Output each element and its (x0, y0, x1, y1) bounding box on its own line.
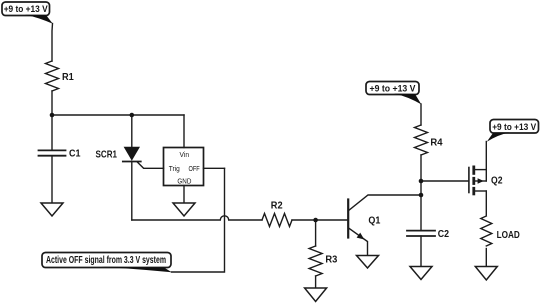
svg-text:Vin: Vin (180, 150, 190, 159)
svg-text:+9 to +13 V: +9 to +13 V (4, 4, 49, 15)
svg-text:SCR1: SCR1 (96, 150, 118, 161)
svg-text:Q2: Q2 (491, 176, 503, 187)
svg-text:LOAD: LOAD (497, 230, 520, 241)
svg-text:C2: C2 (438, 229, 450, 240)
svg-text:Active OFF signal from 3.3 V s: Active OFF signal from 3.3 V system (46, 254, 166, 266)
svg-text:C1: C1 (69, 149, 81, 160)
svg-text:GND: GND (177, 177, 191, 186)
svg-text:R2: R2 (271, 201, 283, 212)
svg-text:R3: R3 (325, 255, 337, 266)
svg-text:+9 to +13 V: +9 to +13 V (492, 122, 537, 133)
svg-text:OFF: OFF (189, 164, 201, 173)
svg-text:Q1: Q1 (368, 216, 380, 227)
svg-text:+9 to +13 V: +9 to +13 V (370, 84, 417, 95)
svg-text:R4: R4 (430, 138, 443, 149)
svg-text:R1: R1 (62, 72, 74, 83)
svg-text:Trig: Trig (169, 164, 180, 173)
